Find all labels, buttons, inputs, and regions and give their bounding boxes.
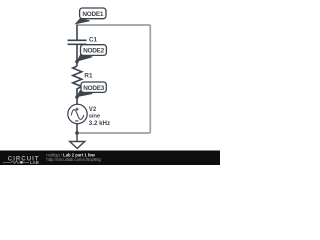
svg-text:C1: C1 [89,37,98,44]
voltage source V2 (sine) [68,97,87,133]
svg-text:NODE3: NODE3 [83,85,104,92]
svg-text:3.2 kHz: 3.2 kHz [89,120,110,127]
svg-text:NODE1: NODE1 [82,11,103,18]
ground [70,133,85,148]
svg-text:sine: sine [89,114,101,120]
node junction dot NODE3 attach [75,95,79,99]
node NODE3 flag [77,82,107,97]
svg-text:V2: V2 [89,106,97,113]
wire bottom horizontal back to ground node [77,132,150,134]
svg-text:http://circuitlab.com/c/5np65g: http://circuitlab.com/c/5np65g [46,157,101,162]
resistor R1 [73,66,82,97]
wire vertical stub node1 to capacitor C1 [76,25,78,40]
node NODE2 flag [77,45,106,61]
footer bar [0,151,220,166]
node junction dot ground [75,131,79,135]
node junction dot NODE2 attach [75,60,79,64]
node NODE1 flag [76,8,107,24]
wire vertical stub capacitor to resistor R1 [76,44,78,66]
V2 sine waveform [71,110,84,120]
V2 minus mark [75,120,78,122]
capacitor C1 [68,40,87,44]
V2 plus mark [75,108,78,111]
wire top horizontal from NODE1 to right edge [77,24,150,26]
wire right vertical [149,25,151,133]
CircuitLab logo [3,156,40,165]
svg-text:NODE2: NODE2 [83,48,104,55]
svg-text:LAB: LAB [30,160,39,165]
svg-text:R1: R1 [84,73,93,80]
